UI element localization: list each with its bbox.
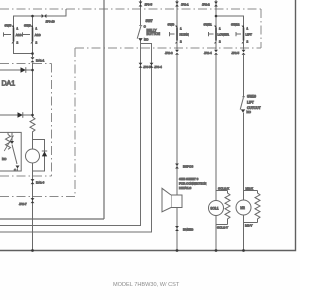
thermal unit box — [0, 132, 21, 171]
connector JP2-1 — [175, 2, 189, 7]
wire SW5 bottom to SW6 wire — [14, 42, 33, 54]
wire branch to SW12 — [216, 16, 244, 28]
diode D2 — [0, 112, 33, 118]
svg-text:DETAILS: DETAILS — [179, 186, 191, 190]
svg-text:LOWER: LOWER — [218, 33, 230, 37]
svg-text:SW11: SW11 — [204, 23, 212, 27]
switch SW9 HORN — [168, 23, 189, 44]
wire lift line down — [243, 113, 245, 191]
connector JP8-4 (SW7 wire 2) — [150, 63, 163, 69]
wire SW11 from top — [215, 0, 217, 28]
svg-text:LIFT: LIFT — [246, 33, 252, 37]
svg-text:SOL1-Y: SOL1-Y — [217, 226, 228, 230]
svg-text:M2-X: M2-X — [246, 186, 253, 190]
solenoid SOL1 assembly — [209, 186, 231, 250]
horn speaker HN1 — [162, 188, 182, 212]
svg-text:SEE SHEET 6: SEE SHEET 6 — [179, 177, 199, 181]
svg-text:NO: NO — [2, 157, 7, 161]
wire SW6 bottom down — [32, 42, 34, 58]
wire SW11 to connector — [215, 41, 217, 50]
node (32.5,70) — [31, 69, 34, 72]
switch SW6 — [23, 23, 42, 44]
wire lower line down — [215, 55, 217, 191]
svg-text:JP8-7: JP8-7 — [143, 65, 151, 69]
connector JP8-7 (SW7 wire 1) — [139, 63, 152, 69]
junction — [31, 52, 34, 55]
wire bottom route 1 (SW7 NO wire to left edge) — [0, 41, 141, 226]
svg-text:JP8-5: JP8-5 — [145, 3, 153, 7]
connector HSPOS — [175, 164, 193, 169]
svg-text:JP2-7: JP2-7 — [19, 202, 27, 206]
svg-text:FOR CONNECTION: FOR CONNECTION — [179, 182, 206, 186]
svg-text:A1G: A1G — [35, 33, 42, 37]
svg-text:2: 2 — [17, 41, 19, 45]
node bus x32.5 — [31, 249, 34, 252]
svg-text:JP2-4: JP2-4 — [204, 51, 212, 55]
svg-text:2: 2 — [180, 40, 182, 44]
svg-text:SOL1-X: SOL1-X — [218, 186, 229, 190]
svg-text:JP8-10: JP8-10 — [46, 19, 56, 23]
wire lift line to SW10 — [243, 55, 245, 97]
svg-text:SW6: SW6 — [24, 23, 31, 27]
svg-text:SW7: SW7 — [146, 19, 153, 23]
DA1 dashed enclosure box — [0, 64, 52, 177]
svg-text:HSPOS: HSPOS — [183, 165, 193, 169]
connector HVNEG — [175, 226, 194, 231]
node bus x177 — [176, 249, 179, 252]
motor loop with flyback diode — [33, 140, 45, 172]
svg-text:SW5: SW5 — [5, 23, 12, 27]
motor M2 assembly — [236, 186, 260, 250]
svg-text:DA1: DA1 — [2, 81, 16, 88]
wire SW9 to connector — [176, 41, 178, 50]
svg-text:JP2-1: JP2-1 — [181, 3, 189, 7]
wire motor bottom down — [32, 163, 34, 251]
svg-text:M2: M2 — [240, 206, 245, 210]
svg-text:SW12: SW12 — [231, 23, 240, 27]
connector DA1-1 — [31, 57, 45, 62]
wire horn line down — [176, 55, 178, 195]
switch SW11 LOWER — [204, 23, 230, 44]
svg-text:HVNEG: HVNEG — [183, 227, 194, 231]
switch SW7 BELLY BUTTON — [137, 19, 160, 42]
connector JP2-5 — [232, 50, 246, 55]
svg-text:DA1-1: DA1-1 — [36, 59, 45, 63]
svg-text:2: 2 — [247, 40, 249, 44]
wire SW9 from top — [176, 0, 178, 28]
svg-text:JP2-5: JP2-5 — [232, 51, 240, 55]
wire SW12 to connector — [243, 41, 245, 50]
power unit solid box edge — [0, 0, 104, 219]
svg-text:JP2-3: JP2-3 — [165, 51, 173, 55]
svg-text:1: 1 — [219, 26, 221, 30]
junction — [31, 15, 34, 18]
connector JP8-5 (top of SW7 wire) — [139, 2, 153, 7]
wire main left vertical — [32, 63, 34, 117]
svg-text:DA1-6: DA1-6 — [36, 180, 45, 184]
junction — [215, 15, 218, 18]
variable resistor RT — [4, 132, 13, 151]
connector JP8-10 — [42, 14, 55, 23]
node bus x243.5 — [242, 249, 245, 252]
diode D3 (flyback) — [42, 151, 47, 156]
svg-text:SOL1: SOL1 — [210, 206, 218, 210]
diode D1 — [0, 67, 33, 73]
switch SW10 LIFT CUTOUT — [240, 95, 260, 115]
connector DA1-6 — [31, 179, 45, 184]
svg-text:LIFT: LIFT — [247, 101, 254, 105]
svg-text:JP8-4: JP8-4 — [154, 65, 162, 69]
enclosure dash-dot boundary (handle unit) — [0, 9, 261, 197]
svg-text:SW10: SW10 — [247, 95, 256, 99]
connector JP2-7 — [19, 198, 34, 206]
switch SW5 — [4, 23, 23, 44]
svg-text:2: 2 — [36, 41, 38, 45]
svg-text:A1G: A1G — [16, 33, 23, 37]
svg-text:2: 2 — [219, 40, 221, 44]
svg-text:1: 1 — [17, 26, 19, 30]
switch SW12 LIFT — [231, 23, 252, 44]
svg-text:SW9: SW9 — [168, 23, 175, 27]
top-left switch pair feed wire — [14, 9, 67, 27]
svg-text:1: 1 — [247, 26, 249, 30]
svg-text:NO: NO — [144, 38, 149, 42]
wire resistor to motor loop — [32, 133, 34, 149]
node bus x216 — [215, 249, 218, 252]
svg-text:HORN: HORN — [180, 33, 189, 37]
svg-text:1: 1 — [180, 26, 182, 30]
connector JP2-4 — [204, 50, 218, 55]
connector JP2-2 — [202, 2, 218, 7]
svg-text:C: C — [144, 24, 146, 28]
svg-text:1: 1 — [36, 26, 38, 30]
note text — [179, 177, 206, 190]
node (32.5,115) — [31, 114, 34, 117]
svg-text:C: C — [14, 168, 16, 172]
connector JP2-3 — [165, 50, 179, 55]
wire SW7 upper from top edge — [140, 0, 142, 26]
resistor R (main line) — [30, 117, 35, 133]
wire below speaker — [176, 208, 178, 251]
svg-text:BUTTON: BUTTON — [147, 32, 161, 36]
svg-text:MODEL 7HBW30, W/ CST: MODEL 7HBW30, W/ CST — [113, 282, 180, 288]
svg-text:NO: NO — [247, 110, 252, 114]
thermal switch — [2, 132, 20, 172]
wire long right vertical + bottom bus — [0, 0, 296, 251]
motor MD circle — [26, 149, 40, 163]
svg-text:M2-Y: M2-Y — [245, 224, 252, 228]
svg-text:JP2-2: JP2-2 — [202, 3, 210, 7]
wire bottom route 2 (SW7 second wire to left edge) — [0, 44, 152, 233]
